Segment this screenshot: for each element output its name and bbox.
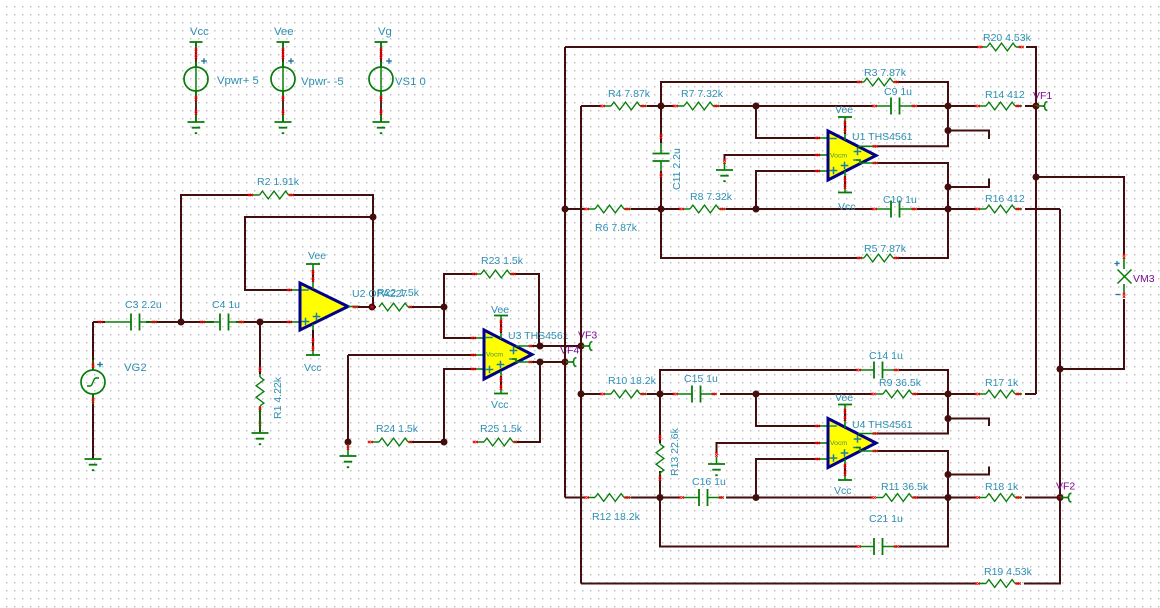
resistor R2 xyxy=(260,191,289,199)
voltage probe VF1 xyxy=(1036,105,1044,107)
svg-text:R18 1k: R18 1k xyxy=(985,481,1019,493)
svg-text:C9 1u: C9 1u xyxy=(884,86,912,98)
bus right column x=1059 (R16 to VF2 to R19) xyxy=(1059,209,1061,584)
U4 Vee supply pin xyxy=(838,404,852,406)
svg-text:C15 1u: C15 1u xyxy=(684,373,718,385)
voltage probe VF4 xyxy=(565,361,573,363)
ground at U4 Vocm xyxy=(708,464,725,475)
svg-text:C3 2.2u: C3 2.2u xyxy=(125,299,162,311)
junction node N3 (C9/R14/R3/U1 out+) xyxy=(945,103,952,110)
bus right column x=1036 (VF1 to R17) xyxy=(1035,106,1037,394)
junction node U4 out- jog xyxy=(945,471,952,478)
svg-text:Vee: Vee xyxy=(274,26,293,38)
pin x at U4 + input xyxy=(820,458,828,460)
pin x at U1 - input xyxy=(820,137,828,139)
wire U1 input run y=106 xyxy=(581,105,1036,107)
resistor R9 xyxy=(883,390,912,398)
svg-text:R11 36.5k: R11 36.5k xyxy=(881,481,929,493)
svg-text:VF2: VF2 xyxy=(1056,481,1075,493)
wire Vocm corner to U3 xyxy=(348,354,476,356)
resistor R4 xyxy=(611,102,640,110)
resistor R19 xyxy=(986,580,1015,588)
junction node R2/inner loop xyxy=(370,214,377,221)
wire R3 feedback loop xyxy=(661,82,948,106)
resistor R12 xyxy=(595,494,624,502)
capacitor C9 xyxy=(891,98,900,115)
U2 Vcc supply pin xyxy=(306,354,320,356)
capacitor C16 xyxy=(699,489,708,506)
capacitor C15 xyxy=(692,386,701,403)
voltage probe VF2 xyxy=(1060,497,1068,499)
junction node N1 (R4/R7/C11/R3) xyxy=(658,103,665,110)
resistor R1 vertical xyxy=(256,377,264,406)
svg-text:VM3: VM3 xyxy=(1133,273,1155,285)
junction node VM3 + tap xyxy=(1033,174,1040,181)
pin x at U3 + input xyxy=(476,368,484,370)
resistor R6 xyxy=(595,205,624,213)
wire VM3 branch xyxy=(1036,177,1124,369)
svg-text:R6 7.87k: R6 7.87k xyxy=(595,222,638,234)
svg-text:Vcc: Vcc xyxy=(491,399,509,411)
pin x on U4 vocm ground stem xyxy=(715,452,717,457)
wire node B up to U3 + input xyxy=(444,369,476,442)
svg-text:Vocm: Vocm xyxy=(830,153,847,160)
capacitor C10 xyxy=(891,201,900,218)
junction node out-/R25 xyxy=(537,359,544,366)
svg-text:Vee: Vee xyxy=(491,304,509,316)
U3 out- lead xyxy=(512,359,536,362)
svg-text:Vcc: Vcc xyxy=(304,362,322,374)
op-amp U1 THS4561 xyxy=(828,131,876,180)
U2 output lead xyxy=(348,306,360,308)
resistor R17 xyxy=(986,390,1015,398)
wire U4 out+ jog xyxy=(878,394,989,434)
svg-text:R5 7.87k: R5 7.87k xyxy=(864,243,907,255)
wire C11 column xyxy=(660,106,662,209)
junction node after C4 xyxy=(257,319,264,326)
resistor R8 xyxy=(690,205,719,213)
svg-text:C11 2.2u: C11 2.2u xyxy=(671,148,683,190)
wire VG2 to C3 to C4 to U2 + input (y=322) xyxy=(93,321,292,323)
wire U1 Vocm to ground xyxy=(725,155,821,161)
wire M2 down to U4 - input xyxy=(756,394,820,426)
wire U2 output to R22 xyxy=(358,306,376,308)
U3 Vee supply pin xyxy=(494,315,508,317)
svg-text:VF4: VF4 xyxy=(560,345,579,357)
capacitor C4 xyxy=(220,314,229,331)
wire R2 feedback loop xyxy=(181,195,373,322)
svg-text:C16 1u: C16 1u xyxy=(692,476,726,488)
resistor R22 xyxy=(379,303,408,311)
resistor R23 xyxy=(481,270,510,278)
resistor R10 xyxy=(611,390,640,398)
voltage probe VF3 xyxy=(581,345,589,347)
junction node A (R22/R23/U3 -) xyxy=(441,304,448,311)
svg-text:R17 1k: R17 1k xyxy=(985,377,1019,389)
wire N2 down to U1 - input xyxy=(756,106,820,138)
U3 Vcc supply pin xyxy=(494,393,508,395)
svg-text:R2 1.91k: R2 1.91k xyxy=(257,176,300,188)
wire node A up through R23 to out+ node xyxy=(444,274,539,346)
svg-text:R3 7.87k: R3 7.87k xyxy=(864,67,907,79)
ground below R24 node xyxy=(340,456,357,467)
svg-text:R12 18.2k: R12 18.2k xyxy=(592,511,641,523)
wire node A down to U3 - input xyxy=(444,307,476,338)
svg-text:Vee: Vee xyxy=(835,104,853,116)
U4 out+ lead xyxy=(858,433,880,435)
pin x at U1 + input xyxy=(820,170,828,172)
wire U3 out+ to VF3 node xyxy=(532,345,581,347)
wire bottom R19 run y=583.5 xyxy=(581,498,1060,584)
pin x at U3 Vocm input xyxy=(476,354,484,356)
U1 Vee supply pin xyxy=(838,116,852,118)
junction node M5 (C16/R11/U4 +) xyxy=(753,494,760,501)
wire M5 up to U4 + input xyxy=(756,459,820,498)
svg-text:R8 7.32k: R8 7.32k xyxy=(690,191,733,203)
wire N5 up to U1 + input xyxy=(756,171,820,209)
junction node after C3 xyxy=(178,319,185,326)
svg-text:U3 THS4561: U3 THS4561 xyxy=(508,330,569,342)
svg-text:Vocm: Vocm xyxy=(486,352,503,359)
wire inner feedback to U2 - input xyxy=(245,217,373,290)
svg-text:U4 THS4561: U4 THS4561 xyxy=(852,419,913,431)
junction node out+/R23 xyxy=(537,343,544,350)
svg-text:R9 36.5k: R9 36.5k xyxy=(879,377,922,389)
pin x at U2 - input xyxy=(292,289,300,291)
junction node N6 (C10/R16/R5/U1 out-) xyxy=(945,206,952,213)
junction node M2 (C15/R9/U4 -) xyxy=(753,391,760,398)
resistor R5 xyxy=(864,254,893,262)
wire U1 out+ jog xyxy=(878,106,989,146)
junction node R10 tap on VF3 bus xyxy=(578,391,585,398)
svg-text:VS1 0: VS1 0 xyxy=(395,76,426,88)
wire R1 to ground xyxy=(259,410,261,432)
bus VF3 column (x=581): R4 corner to VF3 to R10 to bottom wire xyxy=(580,106,582,584)
svg-text:VF1: VF1 xyxy=(1033,90,1052,102)
svg-text:Vee: Vee xyxy=(835,392,853,404)
wire top R20 run (y=47) xyxy=(565,47,1036,106)
svg-text:R13 22.6k: R13 22.6k xyxy=(669,427,681,476)
svg-text:R10 18.2k: R10 18.2k xyxy=(608,375,657,387)
svg-text:U1 THS4561: U1 THS4561 xyxy=(852,131,913,143)
resistor R20 xyxy=(987,43,1016,51)
svg-text:C14 1u: C14 1u xyxy=(869,350,903,362)
capacitor C21 xyxy=(874,538,883,555)
resistor R24 xyxy=(379,438,408,446)
svg-text:Vcc: Vcc xyxy=(834,485,852,497)
pin x at U3 - input xyxy=(476,337,484,339)
junction node VF4 xyxy=(562,359,569,366)
wire U4 bottom run y=497.5 xyxy=(565,497,1060,499)
pin x above R1 ground xyxy=(259,421,261,426)
svg-text:Vg: Vg xyxy=(378,26,392,38)
junction node VF1 xyxy=(1033,103,1040,110)
svg-text:Vee: Vee xyxy=(308,250,326,262)
svg-text:Vocm: Vocm xyxy=(830,440,847,447)
wire C21 feedback loop xyxy=(660,498,948,547)
pin x at U4 - input xyxy=(820,425,828,427)
junction node M3 (R9/C14/R17/U4 out+) xyxy=(945,391,952,398)
wire C14 feedback loop xyxy=(660,370,948,394)
junction node M1 (R10/C15/R13/C14) xyxy=(657,391,664,398)
svg-text:Vcc: Vcc xyxy=(190,26,209,38)
voltage source Vpwr- (Vee rail) xyxy=(282,42,284,122)
junction node VM3 - tap xyxy=(1057,366,1064,373)
svg-text:R4 7.87k: R4 7.87k xyxy=(608,88,651,100)
wire U2 + node down to R1 xyxy=(259,322,261,374)
svg-text:R7 7.32k: R7 7.32k xyxy=(681,88,724,100)
U1 Vcc supply pin xyxy=(838,192,852,194)
svg-text:C4 1u: C4 1u xyxy=(212,299,240,311)
resistor R11 xyxy=(883,494,912,502)
resistor R14 xyxy=(986,102,1015,110)
resistor R7 xyxy=(684,102,713,110)
svg-text:R25 1.5k: R25 1.5k xyxy=(480,423,523,435)
source VG2 with ground xyxy=(92,322,94,459)
svg-text:R14 412: R14 412 xyxy=(985,89,1025,101)
U4 out- lead xyxy=(856,448,880,452)
voltage source VS1 (Vg) xyxy=(380,42,382,122)
U1 out+ lead xyxy=(858,145,880,147)
resistor R25 xyxy=(484,438,513,446)
pin x at U2 + input xyxy=(292,321,300,323)
svg-text:Vpwr+ 5: Vpwr+ 5 xyxy=(217,75,259,87)
junction node N5 (R8/C10/U1 +) xyxy=(753,206,760,213)
wire U4 Vocm to ground xyxy=(717,443,821,453)
ground at U1 Vocm xyxy=(716,170,733,181)
wire R22 to node A xyxy=(412,306,444,308)
junction node N4 (R6/R8/C11) xyxy=(658,206,665,213)
svg-text:R20 4.53k: R20 4.53k xyxy=(983,32,1032,44)
resistor R16 xyxy=(986,205,1015,213)
svg-text:R22 1.5k: R22 1.5k xyxy=(377,287,420,299)
wire R25 up to out- node xyxy=(517,362,540,442)
op-amp U3 THS4561 xyxy=(484,330,532,379)
junction node VF2 xyxy=(1057,494,1064,501)
pin x on U1 vocm ground stem xyxy=(723,159,725,164)
U1 out- lead xyxy=(856,160,880,163)
junction node N2 (R7/C9/U1 -) xyxy=(753,103,760,110)
wire R24 to node B xyxy=(412,441,444,443)
capacitor C14 xyxy=(874,362,883,379)
svg-text:C10 1u: C10 1u xyxy=(883,194,917,206)
ground below R1 xyxy=(252,433,269,444)
junction node R6 tap on VF4 bus xyxy=(562,206,569,213)
capacitor C3 xyxy=(131,314,140,331)
capacitor C11 vertical xyxy=(653,154,670,162)
wire R13 column xyxy=(659,394,661,498)
junction node U1 out+ jog xyxy=(945,127,952,134)
junction node M6 (R11/C21/R18/U4 out-) xyxy=(945,494,952,501)
wire Vocm down to R24 node xyxy=(347,355,349,442)
svg-text:R19 4.53k: R19 4.53k xyxy=(984,566,1033,578)
svg-text:R24 1.5k: R24 1.5k xyxy=(376,423,419,435)
junction node U2 output xyxy=(369,304,376,311)
resistor R18 xyxy=(986,494,1015,502)
voltmeter VM3 xyxy=(1123,254,1125,259)
svg-text:R1 4.22k: R1 4.22k xyxy=(272,376,284,419)
wire R5 feedback loop xyxy=(661,209,948,258)
junction node U1 out- jog xyxy=(945,184,952,191)
U3 out+ lead xyxy=(516,345,534,347)
wire U4 out- jog xyxy=(878,451,989,498)
svg-text:R16 412: R16 412 xyxy=(985,193,1025,205)
svg-text:VG2: VG2 xyxy=(124,362,147,374)
pin x at U4 Vocm xyxy=(820,442,828,444)
junction node B (R24/R25/U3 +) xyxy=(441,439,448,446)
voltage source Vpwr+ (Vcc rail) xyxy=(195,42,197,122)
svg-text:Vcc: Vcc xyxy=(838,201,856,213)
wire U1 bottom run y=209 xyxy=(565,208,1060,210)
junction node M4 (R12/C16/R13/C21) xyxy=(657,494,664,501)
wire U4 input run y=394 xyxy=(581,393,1036,395)
U4 Vcc supply pin xyxy=(838,479,852,481)
pin x at U1 Vocm xyxy=(820,154,828,156)
op-amp U2 OPA227 xyxy=(300,283,348,330)
junction node U4 out+ jog xyxy=(945,415,952,422)
wire U1 out- jog xyxy=(878,163,989,209)
svg-text:C21 1u: C21 1u xyxy=(869,513,903,525)
wire U3 out- to VF4 node xyxy=(532,361,565,363)
svg-text:R23 1.5k: R23 1.5k xyxy=(481,255,524,267)
bus VF4 column (x=565): top corner to R6 to VF4 to bottom row xyxy=(564,47,566,498)
resistor R3 xyxy=(864,78,893,86)
resistor R13 vertical xyxy=(656,444,664,473)
svg-text:Vpwr- -5: Vpwr- -5 xyxy=(301,76,344,88)
junction node R24 left/gnd xyxy=(345,439,352,446)
op-amp U4 THS4561 xyxy=(828,419,876,468)
junction node VF3 xyxy=(578,343,585,350)
U2 Vee supply pin xyxy=(306,263,320,265)
